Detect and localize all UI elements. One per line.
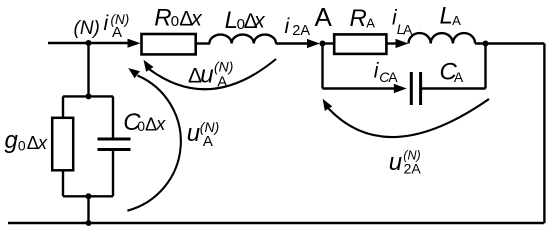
svg-text:u: u bbox=[200, 61, 213, 88]
svg-text:u: u bbox=[389, 149, 402, 176]
svg-text:(N): (N) bbox=[74, 18, 100, 39]
svg-text:A: A bbox=[366, 16, 375, 31]
svg-text:x: x bbox=[253, 10, 266, 33]
svg-text:i: i bbox=[104, 12, 110, 35]
svg-text:R: R bbox=[154, 4, 171, 31]
svg-text:2A: 2A bbox=[404, 161, 422, 177]
svg-text:x: x bbox=[155, 114, 166, 134]
svg-text:A: A bbox=[403, 21, 413, 37]
svg-text:A: A bbox=[452, 13, 461, 28]
svg-text:u: u bbox=[187, 120, 200, 147]
svg-text:2A: 2A bbox=[292, 23, 310, 39]
svg-text:A: A bbox=[217, 73, 227, 90]
svg-text:A: A bbox=[112, 24, 122, 41]
svg-text:g: g bbox=[5, 127, 19, 154]
svg-text:A: A bbox=[203, 133, 213, 150]
svg-text:R: R bbox=[350, 5, 367, 32]
svg-text:i: i bbox=[285, 15, 291, 38]
svg-text:(N): (N) bbox=[214, 58, 233, 74]
svg-text:x: x bbox=[190, 7, 203, 30]
svg-text:0: 0 bbox=[171, 13, 179, 30]
svg-text:L: L bbox=[440, 2, 453, 29]
svg-text:0: 0 bbox=[18, 137, 26, 153]
svg-text:A: A bbox=[388, 69, 398, 85]
svg-text:A: A bbox=[454, 69, 464, 85]
svg-text:A: A bbox=[315, 2, 333, 32]
svg-text:x: x bbox=[37, 133, 48, 153]
